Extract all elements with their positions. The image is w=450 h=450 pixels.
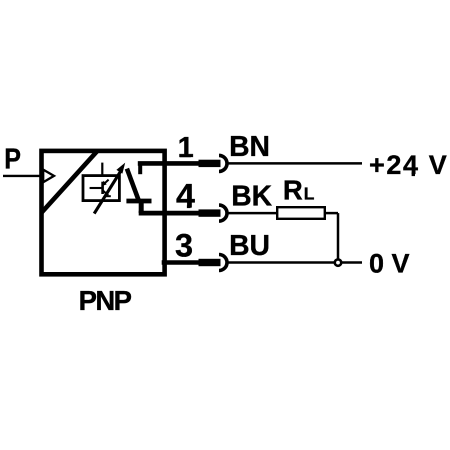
svg-text:+24 V: +24 V — [369, 150, 448, 180]
svg-text:3: 3 — [175, 228, 193, 264]
svg-text:BK: BK — [231, 180, 272, 212]
svg-text:BN: BN — [229, 130, 270, 162]
svg-text:0 V: 0 V — [369, 248, 410, 278]
svg-text:4: 4 — [176, 177, 195, 215]
svg-text:R: R — [283, 174, 303, 205]
svg-text:1: 1 — [178, 132, 194, 164]
svg-text:BU: BU — [229, 229, 270, 261]
svg-text:L: L — [304, 183, 315, 203]
svg-text:PNP: PNP — [79, 285, 132, 316]
svg-text:P: P — [4, 143, 21, 175]
